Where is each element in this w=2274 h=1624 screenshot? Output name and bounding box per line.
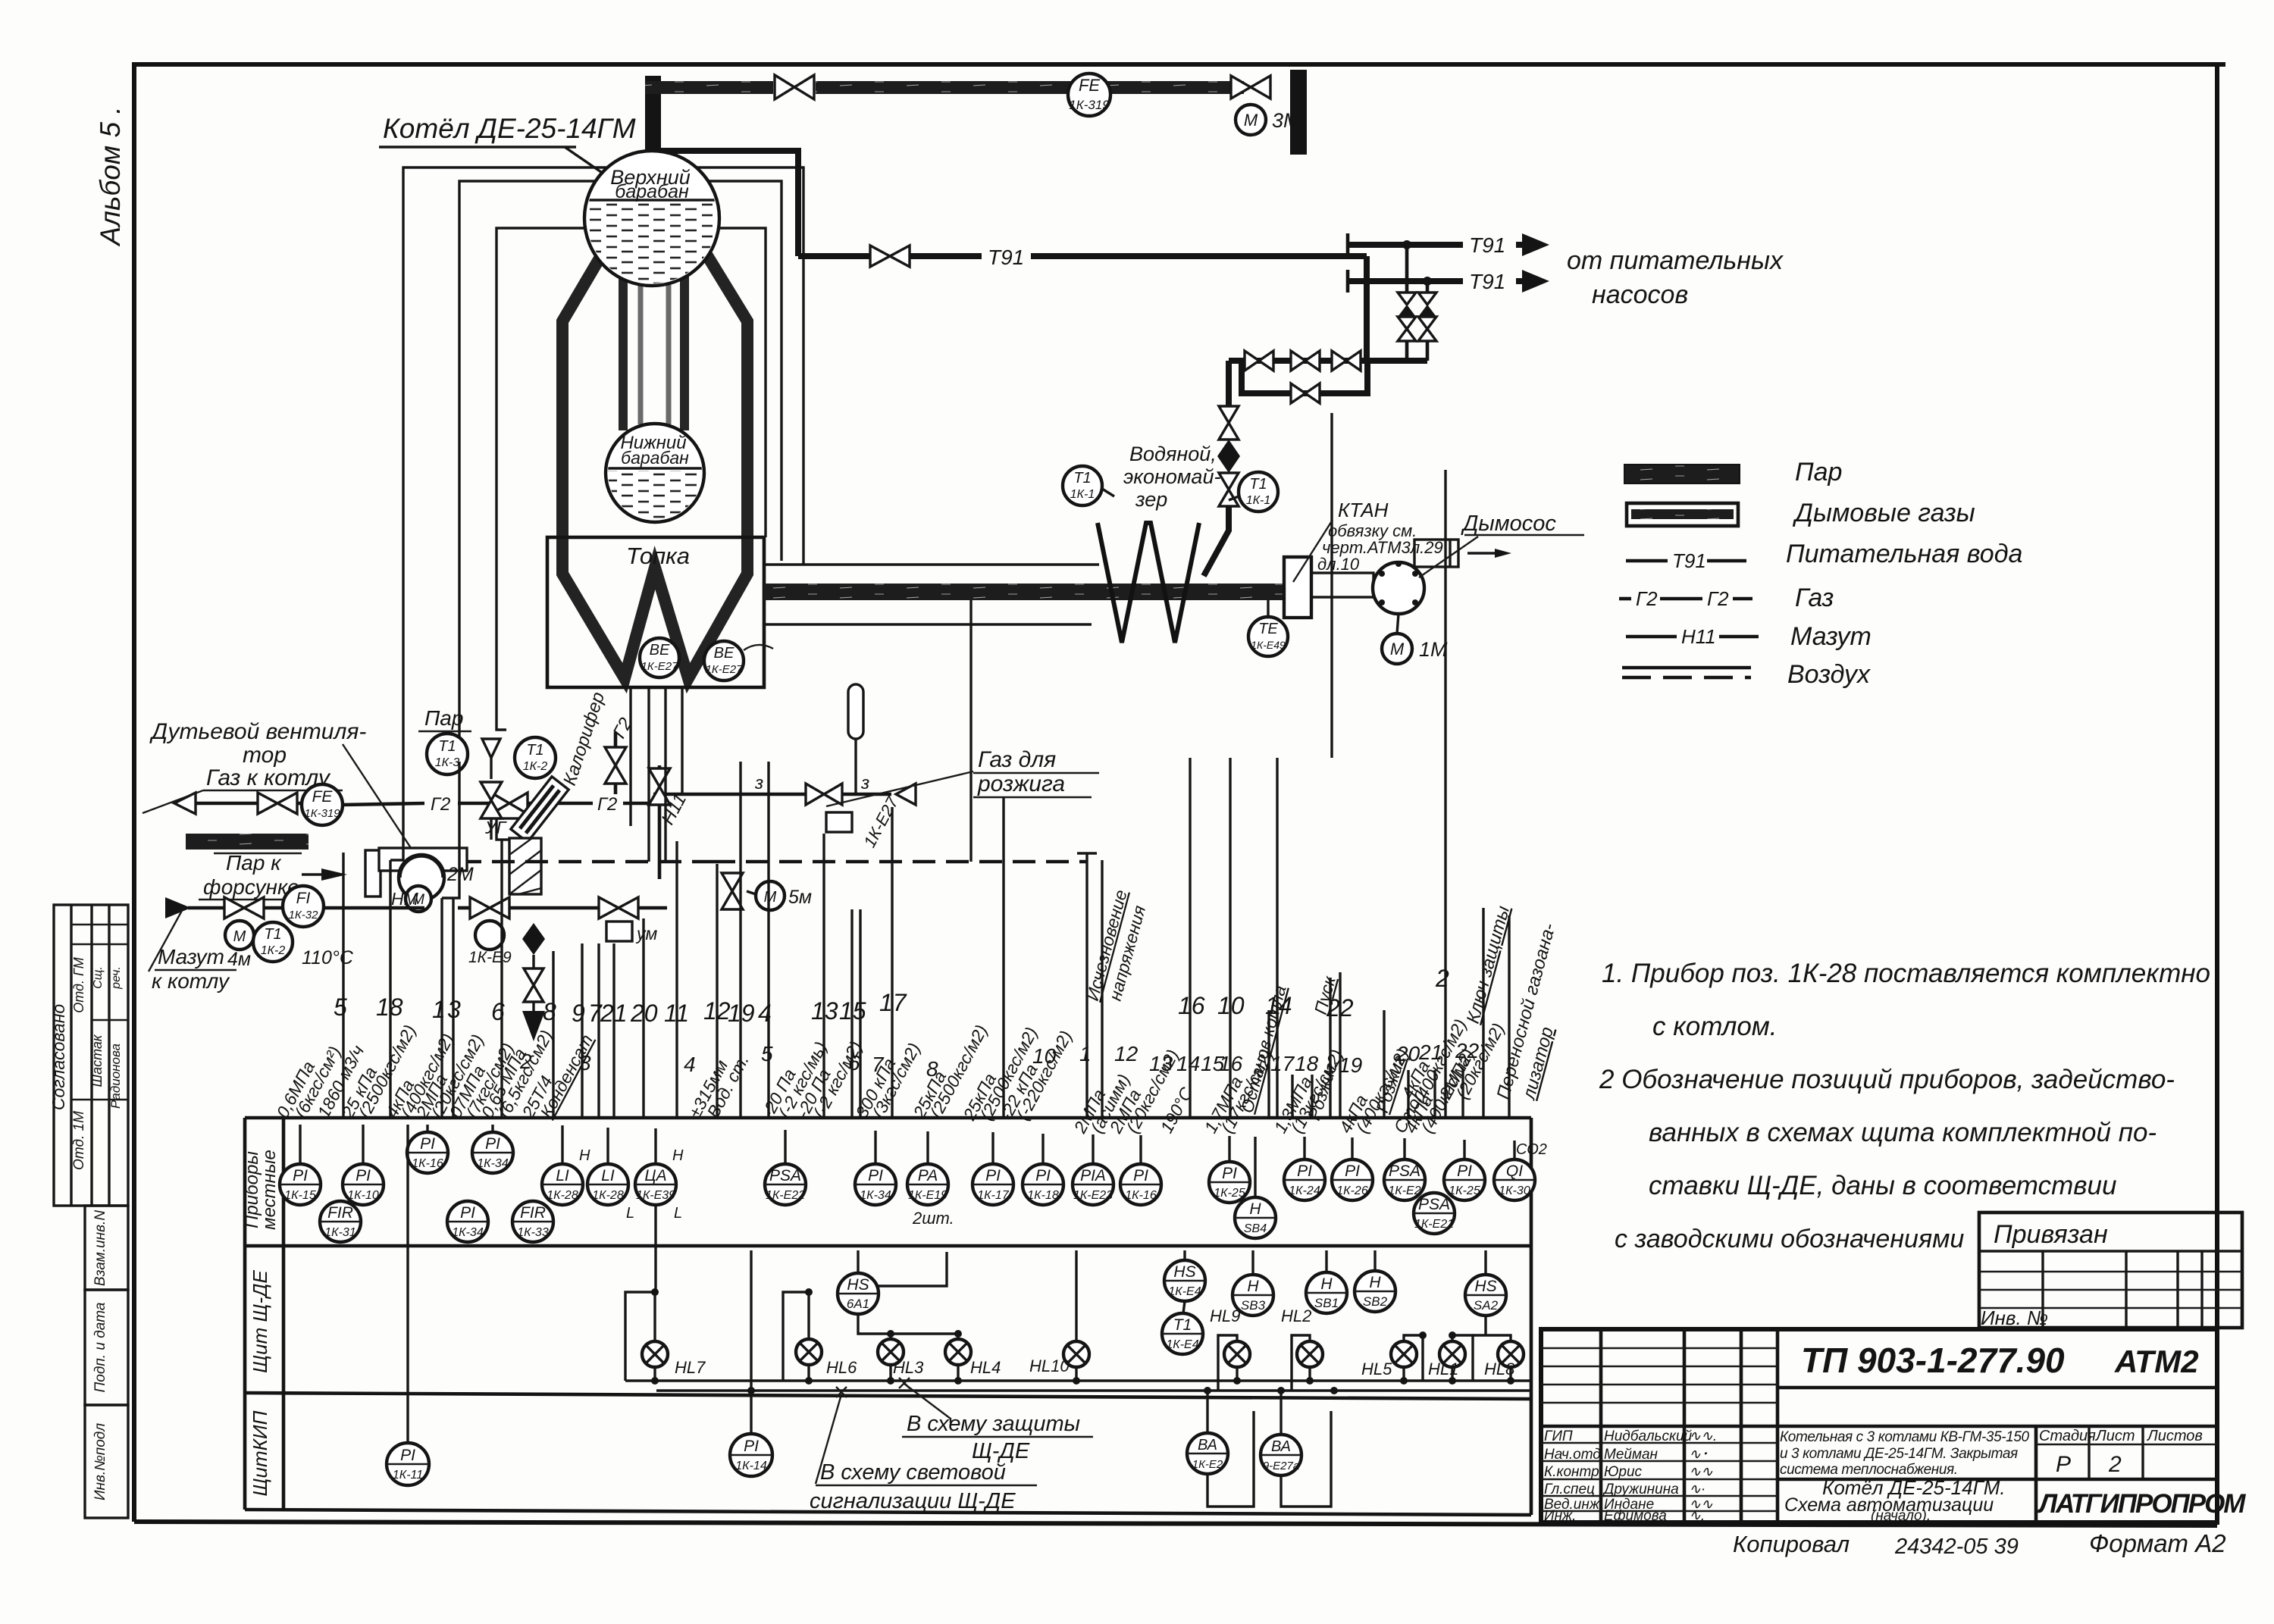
svg-text:Н: Н (1247, 1278, 1259, 1295)
svg-text:PI: PI (1345, 1162, 1360, 1180)
svg-text:Мазут: Мазут (158, 945, 224, 968)
svg-text:экономай-: экономай- (1123, 465, 1220, 488)
svg-text:1К-34: 1К-34 (860, 1189, 891, 1202)
svg-text:1К-30: 1К-30 (1499, 1184, 1530, 1197)
svg-text:дл.10: дл.10 (1317, 555, 1360, 574)
svg-text:110°С: 110°С (302, 947, 354, 968)
svg-text:УГ: УГ (484, 818, 507, 837)
svg-text:Н: Н (579, 1147, 590, 1164)
svg-text:∿･: ∿･ (1689, 1447, 1708, 1463)
svg-text:1К-Е4: 1К-Е4 (1166, 1338, 1198, 1351)
svg-text:19: 19 (728, 1000, 755, 1027)
svg-text:М: М (233, 928, 246, 945)
svg-text:17: 17 (879, 989, 907, 1016)
svg-text:PIA: PIA (1080, 1167, 1106, 1184)
gas supply line Г2 (174, 793, 196, 814)
instrument PI 1К-10 (343, 1164, 384, 1205)
svg-text:SB4: SB4 (1244, 1222, 1267, 1235)
instrument FIR 1К-31 (320, 1201, 361, 1242)
line number labels row 2 (519, 1039, 1480, 1081)
double block valves on feed lines (1398, 293, 1436, 361)
svg-text:Радионова: Радионова (108, 1044, 123, 1109)
notes text (1599, 959, 2210, 1253)
stamp cell Инв.№подл (85, 1405, 128, 1518)
steam pipe from drum top (645, 76, 661, 161)
svg-text:Воздух: Воздух (1787, 660, 1871, 689)
T91 feed line to economizer (798, 253, 870, 259)
valve unit ВА 1К-Е2 (1206, 1391, 1208, 1433)
svg-text:СО2: СО2 (1516, 1141, 1547, 1158)
svg-text:1К-Е23: 1К-Е23 (1073, 1189, 1113, 1202)
instrument PI 1К-16 (407, 1132, 448, 1173)
local instruments row (300, 1125, 1514, 1205)
lamp HL9 (1210, 1306, 1250, 1381)
svg-text:2: 2 (1435, 965, 1449, 992)
svg-text:КТАН: КТАН (1338, 499, 1389, 521)
svg-text:1: 1 (432, 996, 446, 1023)
svg-text:1. Прибор поз. 1К-28 поставл: 1. Прибор поз. 1К-28 поставляется компле… (1602, 959, 2210, 988)
svg-text:∿.: ∿. (1689, 1508, 1705, 1524)
svg-text:11: 11 (664, 1000, 689, 1027)
svg-text:ванных в схемах щита компл: ванных в схемах щита комплектной по- (1649, 1118, 2157, 1147)
svg-text:НМ: НМ (391, 889, 419, 909)
gas for ignition line (653, 793, 813, 796)
svg-text:PI: PI (1297, 1162, 1312, 1180)
TI 1К-2 circle (0, 0, 2, 2)
instrument ЦА 1К-Е39 (635, 1164, 676, 1205)
svg-text:1К-Е22: 1К-Е22 (766, 1189, 805, 1202)
svg-text:5: 5 (761, 1042, 773, 1065)
main steam pipe (top) (645, 81, 1244, 94)
instrument PSA 1К-Е2 (1384, 1159, 1425, 1200)
furnace box Топка (547, 537, 764, 687)
manifold valve 1 (1245, 351, 1259, 371)
Н11 vertical line with valve (658, 765, 662, 879)
instrument PI 1К-26 (1332, 1159, 1373, 1200)
thermometer TI 1К-3 (0, 0, 2, 2)
svg-text:1К-Е2: 1К-Е2 (1192, 1458, 1223, 1471)
svg-text:4: 4 (684, 1053, 696, 1076)
svg-text:1К-15: 1К-15 (284, 1189, 316, 1202)
gauge PI 1К-11 (387, 1443, 429, 1485)
svg-text:система теплоснабжения.: система теплоснабжения. (1780, 1462, 1958, 1478)
svg-text:∿∿.: ∿∿. (1689, 1428, 1717, 1444)
smoke exhauster fan Дымосос (1311, 512, 1584, 614)
air duct dashed (425, 860, 713, 864)
svg-text:9-Е27а: 9-Е27а (1263, 1460, 1299, 1472)
economizer inlet drop with valves (1226, 361, 1232, 406)
svg-text:Г2: Г2 (1636, 587, 1658, 610)
svg-text:ЩитКИП: ЩитКИП (249, 1410, 271, 1496)
svg-text:1К-3: 1К-3 (435, 756, 460, 769)
svg-text:4м: 4м (227, 949, 251, 970)
instrument PI 1К-34 (855, 1164, 896, 1205)
instrument PI 1К-15 (280, 1164, 321, 1205)
button H SB2 (1373, 1250, 1376, 1271)
svg-text:Инв. №: Инв. № (1981, 1306, 2048, 1329)
svg-text:Р: Р (2056, 1452, 2071, 1477)
valve unit ВА 9-Е27а (1280, 1391, 1282, 1435)
temperature element TE 1К-Е49 (1248, 600, 1288, 656)
svg-text:∿∿: ∿∿ (1689, 1464, 1713, 1480)
legend: gas line (1619, 597, 1631, 601)
svg-text:Подп. и дата: Подп. и дата (92, 1303, 108, 1393)
svg-text:Газ: Газ (1795, 584, 1834, 612)
svg-text:з: з (860, 773, 869, 793)
svg-text:6: 6 (491, 998, 505, 1025)
svg-text:ВЕ: ВЕ (650, 642, 670, 659)
svg-text:барабан: барабан (621, 448, 689, 468)
svg-text:HL4: HL4 (970, 1358, 1001, 1377)
instrument PSA 1К-Е22 (765, 1164, 806, 1205)
svg-text:24342-05 39: 24342-05 39 (1894, 1535, 2019, 1559)
feedwater pump lines T91 (1348, 233, 1784, 309)
svg-text:Листов: Листов (2146, 1428, 2203, 1444)
legend: flue gas bar (1627, 503, 1738, 526)
svg-text:ВА: ВА (1198, 1437, 1217, 1453)
svg-text:Питательная вода: Питательная вода (1786, 540, 2022, 568)
svg-text:Юрис: Юрис (1604, 1464, 1643, 1480)
instrument PI 1К-34 (447, 1201, 488, 1242)
svg-text:LI: LI (601, 1167, 615, 1184)
Г2 riser (614, 732, 618, 794)
svg-text:HS: HS (1474, 1278, 1496, 1295)
flame detector BE 1К-Е27б (704, 641, 773, 681)
KTAN heat recovery box (1284, 557, 1311, 618)
svg-text:HL10: HL10 (1029, 1356, 1070, 1375)
svg-text:Н11: Н11 (1681, 625, 1716, 648)
svg-text:PSA: PSA (1389, 1162, 1420, 1180)
feed manifold (1229, 358, 1427, 364)
downcomer tubes (619, 274, 628, 430)
svg-text:Т1: Т1 (1073, 470, 1091, 487)
flue gas duct (764, 584, 1284, 600)
svg-text:PI: PI (985, 1167, 1001, 1184)
svg-text:1К-24: 1К-24 (1289, 1184, 1320, 1197)
bypass loop with valve (1242, 361, 1367, 393)
svg-text:1К-17: 1К-17 (977, 1189, 1010, 1202)
valve with motor 3M at pipe end (1231, 76, 1251, 99)
svg-text:1К-1: 1К-1 (1246, 494, 1271, 507)
svg-text:Мазут: Мазут (1790, 622, 1872, 651)
instrument PI 1К-25 (1444, 1159, 1485, 1200)
lamp HL4 (945, 1339, 1001, 1381)
feed line to PI 1К-14 (750, 1250, 752, 1435)
svg-text:зер: зер (1135, 488, 1167, 511)
manifold valve 3 (1332, 351, 1346, 371)
instrument PIA 1К-Е23 (1073, 1164, 1114, 1205)
stamp cell Подп. и дата (85, 1290, 128, 1405)
svg-text:FI: FI (296, 890, 311, 907)
svg-text:1К-Е21: 1К-Е21 (1414, 1218, 1454, 1231)
svg-text:2шт.: 2шт. (912, 1209, 954, 1228)
svg-text:Мейман: Мейман (1604, 1447, 1659, 1463)
svg-text:HL6: HL6 (826, 1358, 857, 1377)
instrument PI 1К-17 (973, 1164, 1013, 1205)
Привязан box (1979, 1213, 2242, 1329)
project name (1780, 1429, 2029, 1478)
svg-text:1К-Е19: 1К-Е19 (908, 1189, 947, 1202)
svg-text:Шастак: Шастак (89, 1034, 105, 1087)
svg-text:ставки Щ-ДЕ, даны в соотве: ставки Щ-ДЕ, даны в соответствии (1649, 1171, 2116, 1200)
svg-text:с котлом.: с котлом. (1652, 1012, 1778, 1041)
gas valve УГ (491, 793, 509, 814)
svg-text:HL7: HL7 (675, 1358, 706, 1377)
svg-text:2: 2 (2108, 1452, 2122, 1477)
svg-text:Т1: Т1 (438, 738, 456, 755)
flow element FE 1К-319 on steam pipe (1068, 74, 1110, 116)
svg-text:1К-28: 1К-28 (547, 1189, 578, 1202)
lamp HL6 (796, 1339, 857, 1381)
svg-text:1К-18: 1К-18 (1027, 1189, 1059, 1202)
svg-text:Г2: Г2 (597, 794, 617, 815)
svg-text:Пар к: Пар к (226, 851, 282, 875)
svg-text:PI: PI (485, 1135, 500, 1153)
svg-text:Гл.спец: Гл.спец (1544, 1482, 1595, 1497)
svg-text:Н: Н (1369, 1274, 1381, 1291)
svg-text:Привязан: Привязан (1994, 1220, 2108, 1249)
svg-text:Топка: Топка (626, 543, 690, 569)
svg-text:з: з (754, 773, 763, 793)
svg-text:Альбом 5 .: Альбом 5 . (95, 106, 126, 246)
svg-text:ум: ум (635, 924, 658, 943)
svg-text:Сщ.: Сщ. (92, 966, 105, 989)
svg-text:8: 8 (543, 998, 556, 1025)
svg-text:PSA: PSA (1418, 1196, 1450, 1213)
svg-text:Ефимова: Ефимова (1604, 1508, 1667, 1524)
switch HS 6А1 (857, 1250, 859, 1273)
stamp cell Взам.инв.N (85, 1206, 128, 1290)
svg-text:Копировал: Копировал (1733, 1531, 1850, 1557)
svg-text:1К-34: 1К-34 (477, 1157, 509, 1170)
svg-text:16: 16 (1219, 1052, 1243, 1075)
svg-text:1К-14: 1К-14 (735, 1460, 767, 1472)
svg-text:1К-2: 1К-2 (523, 760, 548, 773)
lamp HL1 (1428, 1341, 1465, 1381)
svg-text:Пар: Пар (1795, 458, 1842, 487)
svg-text:тор: тор (243, 743, 287, 768)
instrument PI 1К-18 (1023, 1164, 1063, 1205)
svg-text:18: 18 (376, 993, 403, 1021)
svg-text:АТМ2: АТМ2 (2114, 1344, 2199, 1379)
svg-text:1К-1: 1К-1 (1070, 488, 1095, 501)
svg-text:В схему световой: В схему световой (820, 1460, 1006, 1485)
svg-text:FE: FE (1079, 76, 1100, 95)
line number labels row 1 (334, 965, 1449, 1027)
svg-text:SA2: SA2 (1474, 1298, 1499, 1313)
svg-text:PI: PI (460, 1204, 475, 1222)
svg-text:Т91: Т91 (988, 246, 1024, 269)
svg-text:PI: PI (356, 1167, 371, 1184)
button H SB1 (1325, 1250, 1327, 1272)
switch HS SA2 (1484, 1250, 1486, 1275)
indicator T1 1К-Е4 (1162, 1313, 1203, 1354)
svg-text:Формат А2: Формат А2 (2089, 1529, 2226, 1557)
svg-text:1К-319: 1К-319 (1069, 98, 1110, 112)
instrument PI 1К-34 (472, 1132, 513, 1173)
svg-text:1К-16: 1К-16 (1125, 1189, 1157, 1202)
lamp HL8 (1484, 1341, 1524, 1381)
steam branch to T91 line (661, 151, 798, 256)
svg-text:Инж.: Инж. (1544, 1508, 1576, 1524)
svg-text:К.контр: К.контр (1544, 1464, 1599, 1480)
signal bus lines (625, 1379, 1532, 1381)
svg-text:3: 3 (447, 996, 461, 1023)
svg-text:и 3 котлами ДЕ-25-14ГМ. Закрыт: и 3 котлами ДЕ-25-14ГМ. Закрытая (1780, 1446, 2018, 1462)
panel Щ-ДЕ row (654, 1205, 656, 1291)
upper drum (584, 151, 720, 286)
svg-text:Т1: Т1 (264, 926, 281, 943)
svg-text:1К-26: 1К-26 (1336, 1184, 1368, 1197)
oil filter diamond (522, 923, 545, 955)
svg-text:М: М (764, 889, 777, 906)
svg-text:PA: PA (918, 1167, 938, 1184)
svg-text:Т1: Т1 (526, 742, 543, 759)
svg-text:местные: местные (259, 1150, 280, 1230)
svg-text:PI: PI (420, 1135, 435, 1153)
svg-text:Дружинина: Дружинина (1602, 1482, 1679, 1497)
svg-text:ЦА: ЦА (644, 1167, 666, 1184)
svg-text:Т1: Т1 (1249, 476, 1267, 493)
svg-text:∿·: ∿· (1689, 1482, 1705, 1497)
drops from T91 lines to valve pairs (1402, 240, 1411, 249)
legend: feed water line (1626, 559, 1668, 563)
svg-text:розжига: розжига (977, 771, 1065, 796)
svg-text:5м: 5м (788, 887, 812, 908)
svg-text:насосов: насосов (1592, 280, 1688, 309)
svg-text:Пар: Пар (424, 706, 463, 730)
svg-text:SB2: SB2 (1363, 1294, 1388, 1309)
svg-text:Г2: Г2 (1707, 587, 1729, 610)
svg-text:1К-Е2: 1К-Е2 (1388, 1184, 1420, 1197)
svg-text:16: 16 (1178, 992, 1205, 1019)
svg-text:PI: PI (744, 1438, 759, 1455)
svg-text:ВА: ВА (1271, 1438, 1291, 1455)
lamp HL10 (1029, 1341, 1089, 1381)
instrument PA 1К-Е19 (907, 1164, 948, 1205)
svg-text:1К-31: 1К-31 (324, 1226, 356, 1239)
valve УМ (599, 897, 619, 918)
svg-text:HS: HS (847, 1276, 869, 1294)
svg-text:М: М (1244, 111, 1258, 130)
svg-text:Щит Щ-ДЕ: Щит Щ-ДЕ (249, 1270, 271, 1373)
svg-text:1К-Е9: 1К-Е9 (468, 949, 512, 966)
gauge PI 1К-14 (730, 1434, 772, 1476)
svg-text:Т91: Т91 (1469, 270, 1505, 293)
svg-text:HL2: HL2 (1281, 1306, 1311, 1325)
lamp HL7 (642, 1341, 706, 1381)
svg-text:1М: 1М (1419, 638, 1448, 661)
svg-text:1К-319: 1К-319 (304, 807, 340, 820)
calorifier (air heater) (509, 838, 541, 894)
thermometer TI 1К-1 right (1229, 472, 1278, 512)
svg-text:PI: PI (1133, 1167, 1148, 1184)
svg-text:18: 18 (1295, 1052, 1319, 1075)
flow element FE 1К-319 gas (302, 784, 343, 825)
duct signal drop (969, 600, 972, 862)
svg-text:ВЕ: ВЕ (714, 645, 735, 662)
svg-text:1К-32: 1К-32 (289, 909, 319, 922)
long feed line to PI 1К-11 (406, 1125, 409, 1444)
svg-text:Отд. ГМ: Отд. ГМ (71, 957, 86, 1013)
svg-text:Нидбальский: Нидбальский (1604, 1428, 1693, 1444)
svg-text:М: М (1390, 640, 1405, 659)
svg-text:4: 4 (758, 1000, 772, 1027)
instrument table grid (245, 1118, 1531, 1515)
svg-text:Н: Н (1320, 1275, 1333, 1293)
svg-text:Стадия: Стадия (2039, 1428, 2096, 1444)
legend: air line (1622, 666, 1751, 670)
svg-text:(начало).: (начало). (1871, 1508, 1931, 1524)
svg-text:Г2: Г2 (431, 794, 450, 815)
svg-text:Водяной,: Водяной, (1129, 443, 1217, 465)
svg-text:1: 1 (1079, 1042, 1092, 1065)
lamp HL3 (878, 1339, 924, 1381)
svg-text:1К-28: 1К-28 (592, 1189, 624, 1202)
economizer coil zigzag (1098, 523, 1199, 643)
instrument H SB4 (1235, 1197, 1276, 1238)
instrument LI 1К-28 (587, 1164, 628, 1205)
svg-text:6А1: 6А1 (847, 1297, 869, 1311)
svg-text:1К-Е4: 1К-Е4 (1168, 1285, 1201, 1298)
svg-text:21: 21 (600, 1000, 628, 1027)
svg-text:Т91: Т91 (1672, 549, 1706, 572)
svg-text:FIR: FIR (327, 1204, 353, 1222)
svg-text:к котлу: к котлу (152, 969, 230, 993)
legend: fuel oil line (1626, 635, 1677, 639)
svg-text:PI: PI (868, 1167, 883, 1184)
svg-text:Взам.инв.N: Взам.инв.N (92, 1210, 108, 1286)
svg-text:HL8: HL8 (1484, 1360, 1515, 1378)
svg-text:LI: LI (556, 1167, 569, 1184)
igniter capsule (848, 684, 863, 739)
svg-text:15: 15 (839, 997, 866, 1025)
svg-text:с заводскими обозначениями: с заводскими обозначениями (1615, 1225, 1964, 1253)
lower drum (606, 424, 705, 524)
vertical steam valve to calorifier (481, 782, 502, 800)
svg-text:HL3: HL3 (893, 1358, 924, 1377)
svg-text:1К-25: 1К-25 (1214, 1187, 1245, 1200)
svg-text:2 Обозначение позиций прибо: 2 Обозначение позиций приборов, задейств… (1599, 1065, 2175, 1094)
signal drop lines to table (343, 413, 1509, 1118)
instrument PI 1К-25 (1209, 1162, 1250, 1203)
TI 1К-3 circle (427, 734, 468, 774)
svg-text:Т1: Т1 (1173, 1316, 1192, 1334)
svg-text:ГИП: ГИП (1544, 1428, 1573, 1444)
svg-text:от питательных: от питательных (1567, 246, 1784, 275)
svg-text:1К-34: 1К-34 (452, 1226, 484, 1239)
svg-text:1К-2: 1К-2 (261, 944, 286, 957)
legend: steam bar (1624, 465, 1740, 483)
svg-text:барабан: барабан (615, 181, 689, 202)
sheet frame (134, 64, 2225, 906)
svg-text:ТП 903-1-277.90: ТП 903-1-277.90 (1801, 1341, 2065, 1380)
instrument LI 1К-28 (542, 1164, 583, 1205)
instrument PI 1К-24 (1284, 1159, 1325, 1200)
button H SB3 (1251, 1250, 1254, 1275)
svg-text:Дутьевой вентиля-: Дутьевой вентиля- (149, 719, 366, 744)
svg-text:PI: PI (293, 1167, 308, 1184)
svg-text:L: L (674, 1205, 682, 1222)
svg-text:ЛАТГИПРОПРОМ: ЛАТГИПРОПРОМ (2037, 1489, 2246, 1519)
lamp HL5 (1361, 1341, 1417, 1381)
svg-text:1К-Е27: 1К-Е27 (641, 660, 679, 673)
svg-text:Нач.отд: Нач.отд (1544, 1447, 1601, 1463)
svg-text:1К-Е27: 1К-Е27 (706, 663, 744, 676)
svg-text:HL1: HL1 (1428, 1360, 1458, 1378)
svg-text:Газ для: Газ для (978, 747, 1056, 772)
svg-text:Н: Н (672, 1147, 684, 1164)
